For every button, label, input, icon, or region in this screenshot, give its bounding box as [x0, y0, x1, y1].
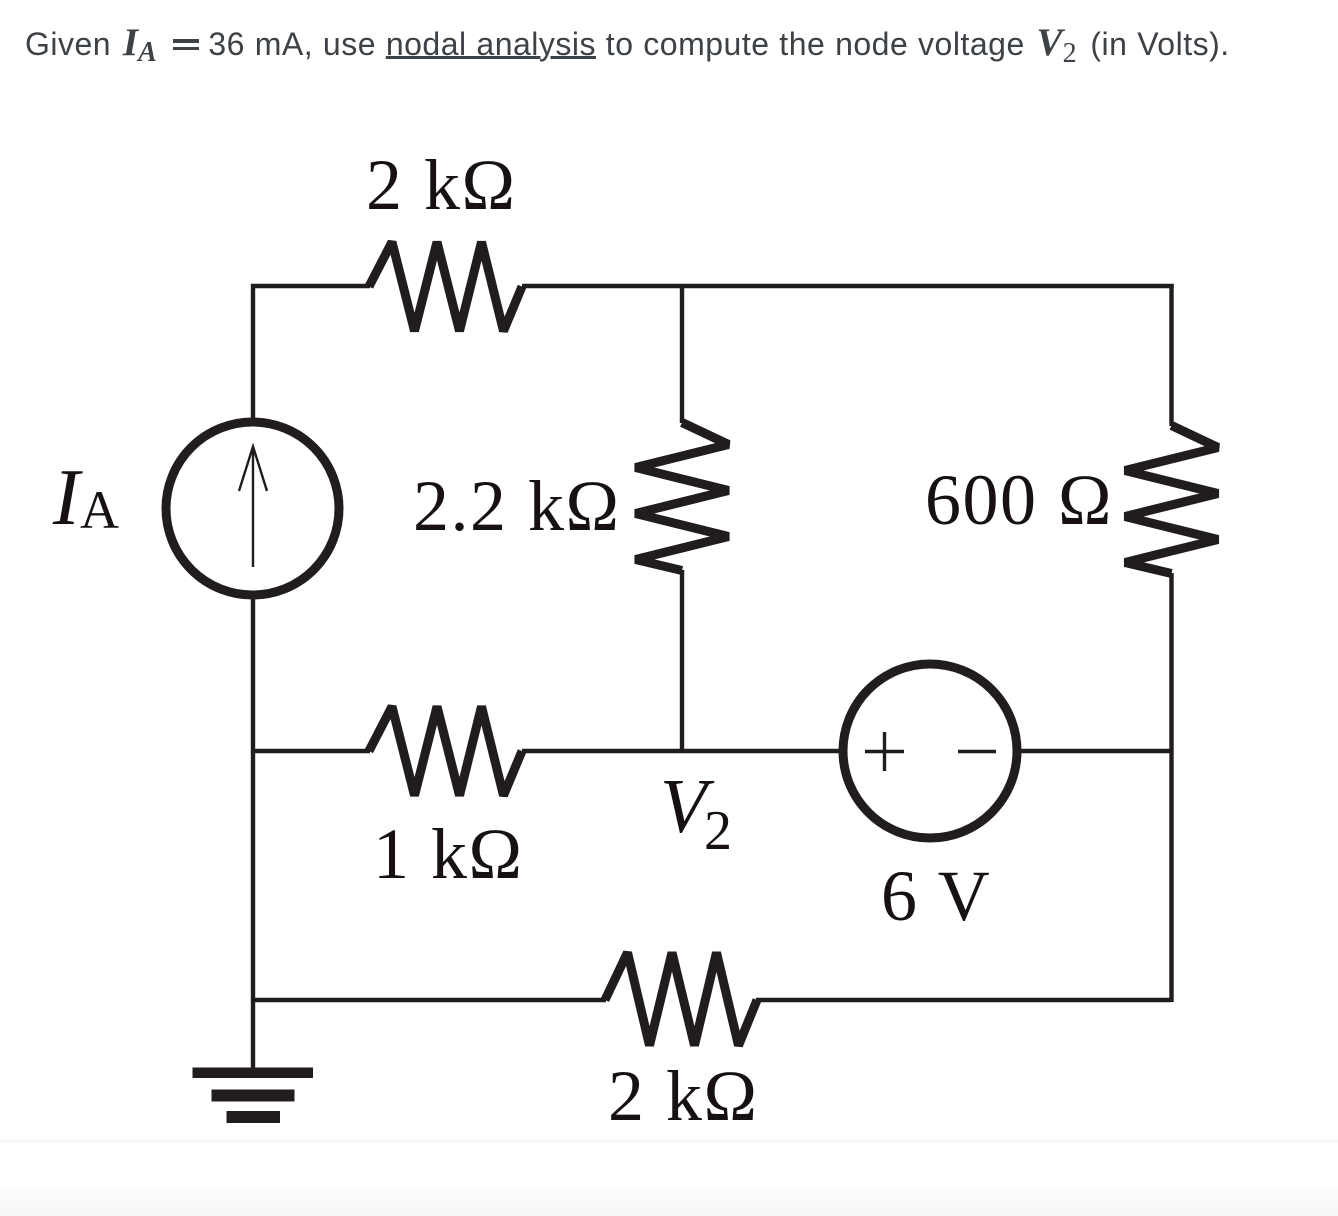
- wire left vertical upper (top wire to current source): [251, 284, 255, 420]
- svg-text:6 V: 6 V: [881, 856, 991, 936]
- wire bottom rail left: [253, 998, 606, 1002]
- voltage source plus sign: [865, 732, 904, 771]
- wire left vertical to ground: [251, 751, 255, 1068]
- wire right vertical upper (top wire to 600): [1169, 284, 1173, 426]
- voltage source 6V circle: [843, 664, 1017, 838]
- resistor 2 kOhm bottom zigzag: [605, 953, 757, 1046]
- current source IA circle: [166, 422, 339, 595]
- resistor 2 kOhm top zigzag: [369, 242, 522, 331]
- svg-text:2.2 kΩ: 2.2 kΩ: [413, 466, 621, 546]
- svg-text:1 kΩ: 1 kΩ: [373, 814, 524, 894]
- problem statement title: [25, 26, 1230, 63]
- ground symbol: [193, 1068, 314, 1124]
- wire left vertical lower (current source to middle rail): [251, 598, 255, 753]
- resistor 2.2 kOhm vertical zigzag: [636, 423, 729, 571]
- svg-text:2 kΩ: 2 kΩ: [366, 145, 517, 225]
- voltage source minus sign: [958, 750, 996, 753]
- wire top horizontal left: [251, 284, 370, 288]
- faint divider line: [0, 1140, 1338, 1143]
- resistor 1 kOhm middle zigzag: [369, 707, 522, 796]
- wire top horizontal right: [522, 284, 1174, 288]
- wire middle rail right (voltage source to right rail): [1016, 749, 1172, 753]
- current source arrow: [239, 447, 267, 568]
- wire right vertical lower (600 to bottom rail): [1169, 573, 1173, 1002]
- wire middle vertical upper (top wire to 2.2k): [680, 286, 684, 423]
- wire middle vertical lower (2.2k to middle rail): [680, 570, 684, 753]
- svg-text:2: 2: [704, 800, 732, 862]
- wire middle rail center (1k to voltage source): [522, 749, 845, 753]
- svg-text:I: I: [52, 454, 83, 542]
- wire middle rail left (left rail to 1k): [251, 749, 370, 753]
- resistor 600 Ohm vertical zigzag: [1125, 426, 1218, 574]
- svg-text:600 Ω: 600 Ω: [925, 460, 1113, 540]
- svg-text:2 kΩ: 2 kΩ: [608, 1056, 759, 1136]
- svg-text:A: A: [80, 480, 119, 540]
- footer strip: [0, 1190, 1338, 1216]
- wire bottom rail right: [756, 998, 1172, 1002]
